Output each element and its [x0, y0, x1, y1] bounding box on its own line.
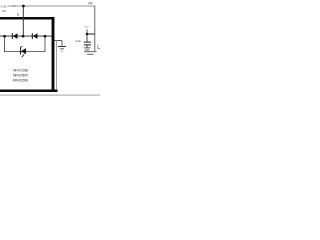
svg-text:MR-K2035NE: MR-K2035NE	[13, 79, 29, 83]
svg-text:AC LINE: AC LINE	[0, 5, 7, 9]
svg-text:MR-K2035E: MR-K2035E	[13, 69, 29, 73]
svg-text:5V: 5V	[85, 25, 89, 29]
svg-text:0.1µF: 0.1µF	[75, 39, 81, 43]
svg-text:MR-K2035YE: MR-K2035YE	[13, 74, 29, 78]
svg-text:VR: VR	[88, 2, 93, 6]
